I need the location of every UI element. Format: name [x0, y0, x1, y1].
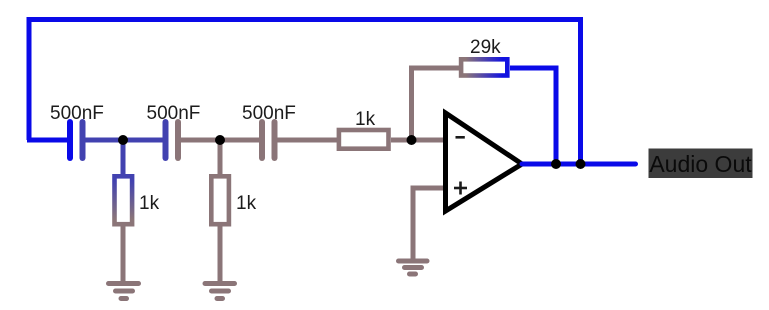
node junction dot D (output/feedback)	[551, 159, 561, 169]
ground GND1	[109, 284, 139, 299]
resistor R3 body 1k series	[339, 130, 389, 149]
wire R1 top lead	[121, 140, 126, 178]
capacitor C1 500nF right plate	[80, 122, 86, 158]
node junction dot C (inverting input)	[407, 135, 417, 145]
wire feedback top loop	[29, 20, 581, 165]
svg-text:Audio Out: Audio Out	[649, 151, 752, 177]
ground GND3	[399, 261, 428, 274]
capacitor C2 500nF left plate	[163, 122, 169, 158]
node junction dot E (output/loop)	[576, 159, 586, 169]
capacitor C3 500nF right plate	[272, 122, 278, 158]
wire R4 to output node	[510, 68, 556, 164]
resistor R4 body 29k feedback	[461, 59, 507, 75]
resistor R2 body	[211, 176, 229, 224]
wire input to C1	[27, 138, 70, 143]
svg-text:1k: 1k	[139, 193, 160, 214]
svg-text:500nF: 500nF	[242, 103, 296, 124]
svg-text:500nF: 500nF	[50, 103, 104, 124]
resistor R1 body	[115, 176, 133, 224]
svg-text:1k: 1k	[236, 193, 257, 214]
svg-text:1k: 1k	[355, 109, 376, 130]
wire C2 to C3	[178, 138, 262, 143]
capacitor C3 500nF left plate	[259, 122, 265, 158]
wire R3 to op-amp inverting input	[391, 138, 446, 143]
wire output to Audio Out	[522, 162, 636, 167]
node junction dot B (C2-C3/R2)	[215, 135, 225, 145]
svg-text:500nF: 500nF	[147, 103, 201, 124]
op-amp U1 inverting marker	[456, 136, 465, 139]
node junction dot A (C1-C2/R1)	[118, 135, 128, 145]
ground GND2	[205, 284, 235, 299]
wire R2 top lead	[218, 140, 223, 178]
label Audio Out background	[649, 149, 753, 179]
op-amp U1 body	[446, 113, 523, 211]
wire R1 bottom lead	[121, 224, 126, 284]
svg-text:29k: 29k	[470, 37, 501, 58]
wire C1 to C2	[83, 138, 166, 143]
wire C3 to R3	[275, 138, 341, 143]
capacitor C1 500nF left plate	[67, 122, 73, 158]
capacitor C2 500nF right plate	[175, 122, 181, 158]
wire non-inverting input to ground	[413, 188, 446, 261]
op-amp U1 non-inverting marker	[454, 182, 467, 195]
wire feedback riser from inverting node	[412, 68, 460, 140]
wire R2 bottom lead	[218, 224, 223, 284]
